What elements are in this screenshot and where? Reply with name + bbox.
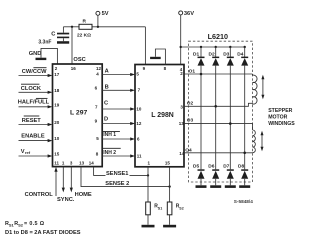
svg-text:20: 20 <box>54 120 60 125</box>
winding 2 direction arrow <box>261 131 264 151</box>
output O4 wire to winding 2 bottom <box>184 148 253 155</box>
diode D3 <box>223 46 234 66</box>
svg-text:CONTROL: CONTROL <box>25 192 54 198</box>
wire: 36V rail to diode cathodes <box>181 46 245 48</box>
signal INH2 wire L297 pin8 to L298N pin11 <box>102 148 135 157</box>
svg-text:R: R <box>83 18 87 24</box>
svg-text:36V: 36V <box>184 11 194 17</box>
signal A wire L297 pin4 to L298N pin5 <box>102 69 135 77</box>
svg-text:D3: D3 <box>223 51 229 57</box>
svg-text:C: C <box>104 100 108 106</box>
motor winding 2 <box>253 130 256 153</box>
svg-text:11: 11 <box>137 153 142 158</box>
wire: osc junction down to L297 pin 16 <box>71 27 73 64</box>
output O1 wire to winding 1 top <box>184 68 253 75</box>
sense resistor RS1 <box>142 167 163 228</box>
svg-text:13: 13 <box>79 161 85 166</box>
svg-text:STEPPER: STEPPER <box>268 108 292 114</box>
svg-text:18: 18 <box>54 88 60 93</box>
svg-text:SENSE 2: SENSE 2 <box>105 181 129 187</box>
svg-text:19: 19 <box>54 102 60 107</box>
svg-text:= 0.5 Ω: = 0.5 Ω <box>24 221 45 227</box>
svg-text:3.3nF: 3.3nF <box>38 39 51 45</box>
signal INH1 wire L297 pin5 to L298N pin6 <box>102 131 135 140</box>
HOME output pin 3 <box>70 167 73 193</box>
ground under capacitor <box>57 41 69 44</box>
signal B wire L297 pin6 to L298N pin7 <box>102 84 135 92</box>
node 36V rail junction <box>180 46 182 48</box>
node SENSE2 <box>168 185 170 187</box>
CONTROL input to pin 11 <box>25 167 58 198</box>
node: OSC junction <box>71 26 73 28</box>
L297 pin numbers <box>54 66 101 166</box>
svg-text:10: 10 <box>136 106 142 111</box>
svg-text:O3: O3 <box>187 118 194 124</box>
L6210 dashed package box <box>189 32 253 182</box>
5V supply terminal <box>96 11 109 27</box>
SENSE1 wire pin14 to RS1 <box>94 167 148 177</box>
svg-text:ENABLE: ENABLE <box>21 134 45 140</box>
diode D2 <box>209 46 220 66</box>
signal D wire L297 pin9 to L298N pin12 <box>102 116 135 125</box>
input ENABLE pin 10 <box>19 134 53 143</box>
motor winding 1 <box>253 74 258 104</box>
note: RS values <box>5 221 45 228</box>
diode D1 <box>193 46 205 66</box>
svg-text:D8: D8 <box>238 164 244 170</box>
svg-text:D1 to D8 = 2A FAST DIODES: D1 to D8 = 2A FAST DIODES <box>5 230 81 236</box>
ground GND to L297 pin 2 <box>29 48 58 64</box>
svg-text:14: 14 <box>179 151 185 156</box>
input Vref pin 15 <box>19 149 53 158</box>
sense resistor RS2 <box>163 167 184 228</box>
svg-text:S2: S2 <box>18 222 24 227</box>
svg-text:15: 15 <box>165 161 171 166</box>
diode D7 <box>223 164 236 188</box>
output O2 wire to winding 1 bottom <box>184 100 253 107</box>
diode D4 <box>237 46 248 66</box>
svg-text:12: 12 <box>96 66 102 71</box>
wire: 5V node down to L298N pin 9 <box>144 27 146 65</box>
36V supply terminal <box>179 11 195 65</box>
label STEPPER MOTOR WINDINGS <box>268 108 295 127</box>
svg-text:CLOCK: CLOCK <box>21 86 42 92</box>
diode D8 <box>238 164 250 188</box>
svg-text:O1: O1 <box>189 68 196 74</box>
L298N pin numbers <box>136 66 184 166</box>
svg-text:D5: D5 <box>193 164 199 170</box>
ground at L298N pin 8 <box>150 49 165 65</box>
input CW/CCW pin 17 <box>19 68 53 77</box>
node SENSE1 <box>147 174 149 176</box>
L297 IC <box>53 64 103 167</box>
svg-text:S2: S2 <box>179 206 183 210</box>
svg-text:GND: GND <box>29 51 42 57</box>
svg-text:15: 15 <box>54 152 60 157</box>
L298N IC <box>135 65 184 167</box>
svg-text:HALF/FULL: HALF/FULL <box>18 99 50 105</box>
svg-text:D2: D2 <box>209 51 215 57</box>
capacitor C 3.3nF <box>38 27 69 46</box>
svg-text:WINDINGS: WINDINGS <box>268 121 295 127</box>
svg-text:L 297: L 297 <box>70 110 87 117</box>
svg-text:L 298N: L 298N <box>151 112 173 119</box>
svg-text:C: C <box>51 31 55 37</box>
svg-text:13: 13 <box>179 121 185 126</box>
svg-text:D: D <box>104 116 108 122</box>
svg-text:RESET: RESET <box>22 118 41 124</box>
svg-text:B: B <box>105 84 109 90</box>
input RESET pin 20 <box>19 116 53 126</box>
diode D6 <box>208 164 221 188</box>
SYNC output pin 1 <box>62 167 65 193</box>
SENSE2 wire pin13 to RS2 <box>81 167 170 187</box>
svg-text:11: 11 <box>54 161 59 166</box>
svg-text:D4: D4 <box>237 51 243 57</box>
svg-text:5V: 5V <box>102 11 109 17</box>
svg-text:ref: ref <box>25 150 31 155</box>
svg-text:S1: S1 <box>158 206 162 210</box>
svg-text:D6: D6 <box>208 164 214 170</box>
svg-text:22 KΩ: 22 KΩ <box>77 33 91 39</box>
winding 1 direction arrow <box>261 75 264 99</box>
output O3 wire to winding 2 top <box>184 118 253 130</box>
svg-text:HOME: HOME <box>75 192 92 198</box>
diode column wires <box>201 66 245 170</box>
svg-text:INH 2: INH 2 <box>103 150 116 156</box>
svg-text:INH 1: INH 1 <box>103 132 116 138</box>
svg-text:O2: O2 <box>187 100 194 106</box>
svg-text:D1: D1 <box>193 51 199 57</box>
svg-text:SENSE1: SENSE1 <box>106 171 128 177</box>
svg-text:S-5848/4: S-5848/4 <box>234 199 253 204</box>
resistor R 22K <box>77 18 92 38</box>
node: 5V junction <box>97 26 99 28</box>
input HALF/FULL pin 19 <box>18 98 53 108</box>
svg-text:14: 14 <box>89 161 95 166</box>
input CLOCK pin 18 <box>19 84 53 94</box>
svg-text:12: 12 <box>136 121 142 126</box>
svg-text:MOTOR: MOTOR <box>268 114 287 120</box>
svg-text:OSC: OSC <box>73 57 85 63</box>
svg-text:CW/CCW: CW/CCW <box>22 69 47 75</box>
svg-text:16: 16 <box>71 66 77 71</box>
svg-text:17: 17 <box>54 72 60 77</box>
signal C wire L297 pin7 to L298N pin10 <box>102 100 135 110</box>
wire: osc node to resistor and 5V node <box>63 26 145 28</box>
svg-text:SYNC.: SYNC. <box>57 197 75 203</box>
diode D5 <box>193 164 207 188</box>
svg-text:A: A <box>105 69 109 75</box>
svg-text:L6210: L6210 <box>208 32 228 41</box>
svg-text:D7: D7 <box>223 164 229 170</box>
svg-text:10: 10 <box>54 136 60 141</box>
